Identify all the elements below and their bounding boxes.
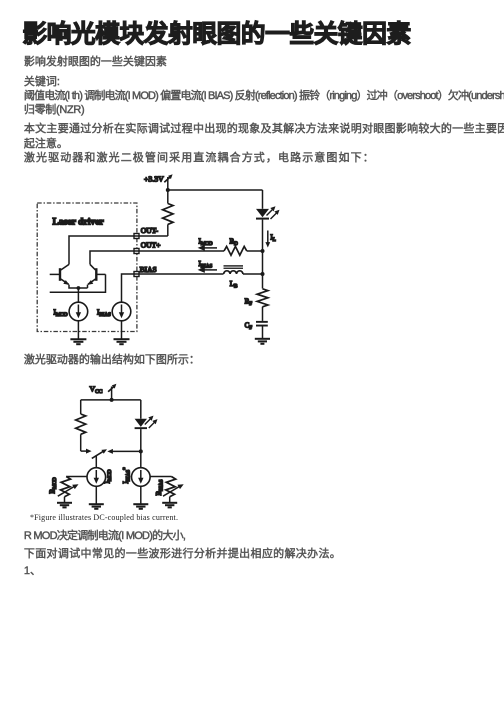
VCC power arrow: [108, 384, 116, 400]
wire: IBIAS to ground: [140, 486, 142, 504]
current arrow IL: [265, 231, 275, 248]
figure caption: [30, 514, 178, 522]
current source IMOD: [54, 302, 88, 321]
wire OUT+ (Q2 collector to RD): [90, 251, 224, 264]
wire: cathode rail down: [262, 251, 264, 289]
svg-text:Laser driver: Laser driver: [53, 217, 105, 228]
resistor RD: [224, 238, 263, 256]
node: common emitter: [77, 286, 81, 290]
ground (below IMOD): [70, 339, 86, 344]
wire: VCC rail: [81, 399, 141, 401]
keyword heading: [24, 77, 60, 88]
title: [23, 23, 411, 48]
variable resistor RMOD: [58, 477, 87, 503]
node: +3.3V junction: [166, 188, 170, 192]
laser diode D1: [256, 190, 269, 251]
wire BIAS (IBIAS source to LB): [122, 274, 224, 302]
svg-text:CF: CF: [245, 321, 253, 331]
node: laser cathode / switch junction: [139, 449, 143, 453]
keywords paragraph line 2: [24, 105, 85, 116]
SCHEMATIC 1: [25, 168, 300, 350]
wire: Q2 base return line: [50, 274, 106, 292]
dashed box: laser driver IC: [37, 203, 137, 332]
svg-text:IL: IL: [270, 234, 275, 244]
ground (below IMOD): [89, 504, 104, 509]
light emission arrows of laser diode D2: [145, 416, 158, 428]
node: VCC junction: [110, 398, 114, 402]
list number: [24, 566, 41, 577]
wire: IMOD to ground: [95, 486, 97, 504]
intro paragraph line 1: [24, 124, 504, 135]
wire: emitters to common node: [69, 285, 88, 288]
svg-text:IMOD: IMOD: [54, 308, 68, 318]
pad BIAS: [134, 272, 139, 277]
current source IBIAS: [97, 302, 131, 321]
paragraph after figure 2: [24, 531, 185, 542]
current arrow IBIAS: [198, 260, 217, 273]
wire OUT- (Q1 collector to pull-up resistor): [69, 236, 168, 264]
wire: IBIAS to ground: [121, 321, 123, 339]
lead-in to figure 2: [24, 355, 200, 366]
current source IBIAS: [132, 468, 151, 487]
capacitor CF: [245, 321, 268, 339]
svg-text:LB: LB: [230, 280, 238, 290]
svg-text:RF: RF: [245, 297, 253, 307]
svg-text:OUT-: OUT-: [141, 226, 159, 235]
svg-text:OUT+: OUT+: [141, 240, 161, 249]
svg-text:RMOD: RMOD: [49, 477, 59, 494]
closing paragraph: [24, 549, 341, 560]
svg-text:VCC: VCC: [90, 385, 103, 396]
subtitle line: [24, 57, 167, 68]
pad OUT-: [134, 234, 139, 239]
svg-text:+3.3V: +3.3V: [144, 175, 164, 184]
light emission arrows of laser diode: [267, 206, 280, 219]
+3.3V power arrow: [164, 174, 172, 190]
ground (below RBIAS): [162, 503, 177, 508]
node: LB to cathode rail: [261, 272, 265, 276]
resistor (pull-up from +3.3V to OUT-): [163, 190, 173, 236]
variable resistor RBIAS: [150, 477, 184, 503]
wire: top rail +3.3V to laser diode: [168, 189, 263, 191]
node: RD to cathode rail: [261, 249, 265, 253]
laser diode D2: [135, 400, 147, 468]
ground (below CF): [255, 339, 270, 344]
svg-text:IBIAS*: IBIAS*: [122, 467, 132, 484]
svg-text:IBIAS: IBIAS: [97, 308, 111, 318]
dummy load resistor (left branch): [76, 400, 86, 451]
switch pole (modulation current steering): [92, 449, 107, 468]
svg-text:BIAS: BIAS: [140, 265, 157, 274]
ground (below RMOD): [57, 503, 72, 508]
svg-text:RBIAS: RBIAS: [155, 479, 165, 495]
pad OUT+: [134, 249, 139, 254]
ground (below IBIAS): [114, 339, 130, 344]
lead-in to figure 1: [24, 153, 375, 164]
current arrow IMOD: [198, 237, 217, 251]
switch throw contact from dummy resistor: [81, 449, 92, 454]
keywords paragraph line 1: [24, 91, 504, 102]
svg-text:IMOD: IMOD: [199, 237, 213, 247]
wire: IMOD to ground: [77, 321, 79, 339]
transistor Q2 (right of differential pair): [87, 264, 105, 285]
+3.3V supply label: [144, 175, 164, 184]
wire: emitter node to IMOD source: [77, 288, 79, 302]
switch throw contact from laser branch: [107, 449, 141, 454]
SCHEMATIC 2: [45, 380, 195, 512]
svg-text:RD: RD: [230, 238, 239, 248]
inductor LB: [224, 265, 263, 289]
svg-text:IBIAS: IBIAS: [199, 260, 213, 270]
current source IMOD: [87, 468, 106, 487]
intro paragraph line 2: [24, 139, 68, 150]
resistor RF: [245, 289, 268, 321]
ground (below IBIAS): [133, 504, 148, 509]
transistor Q1 (left of differential pair): [50, 264, 70, 285]
